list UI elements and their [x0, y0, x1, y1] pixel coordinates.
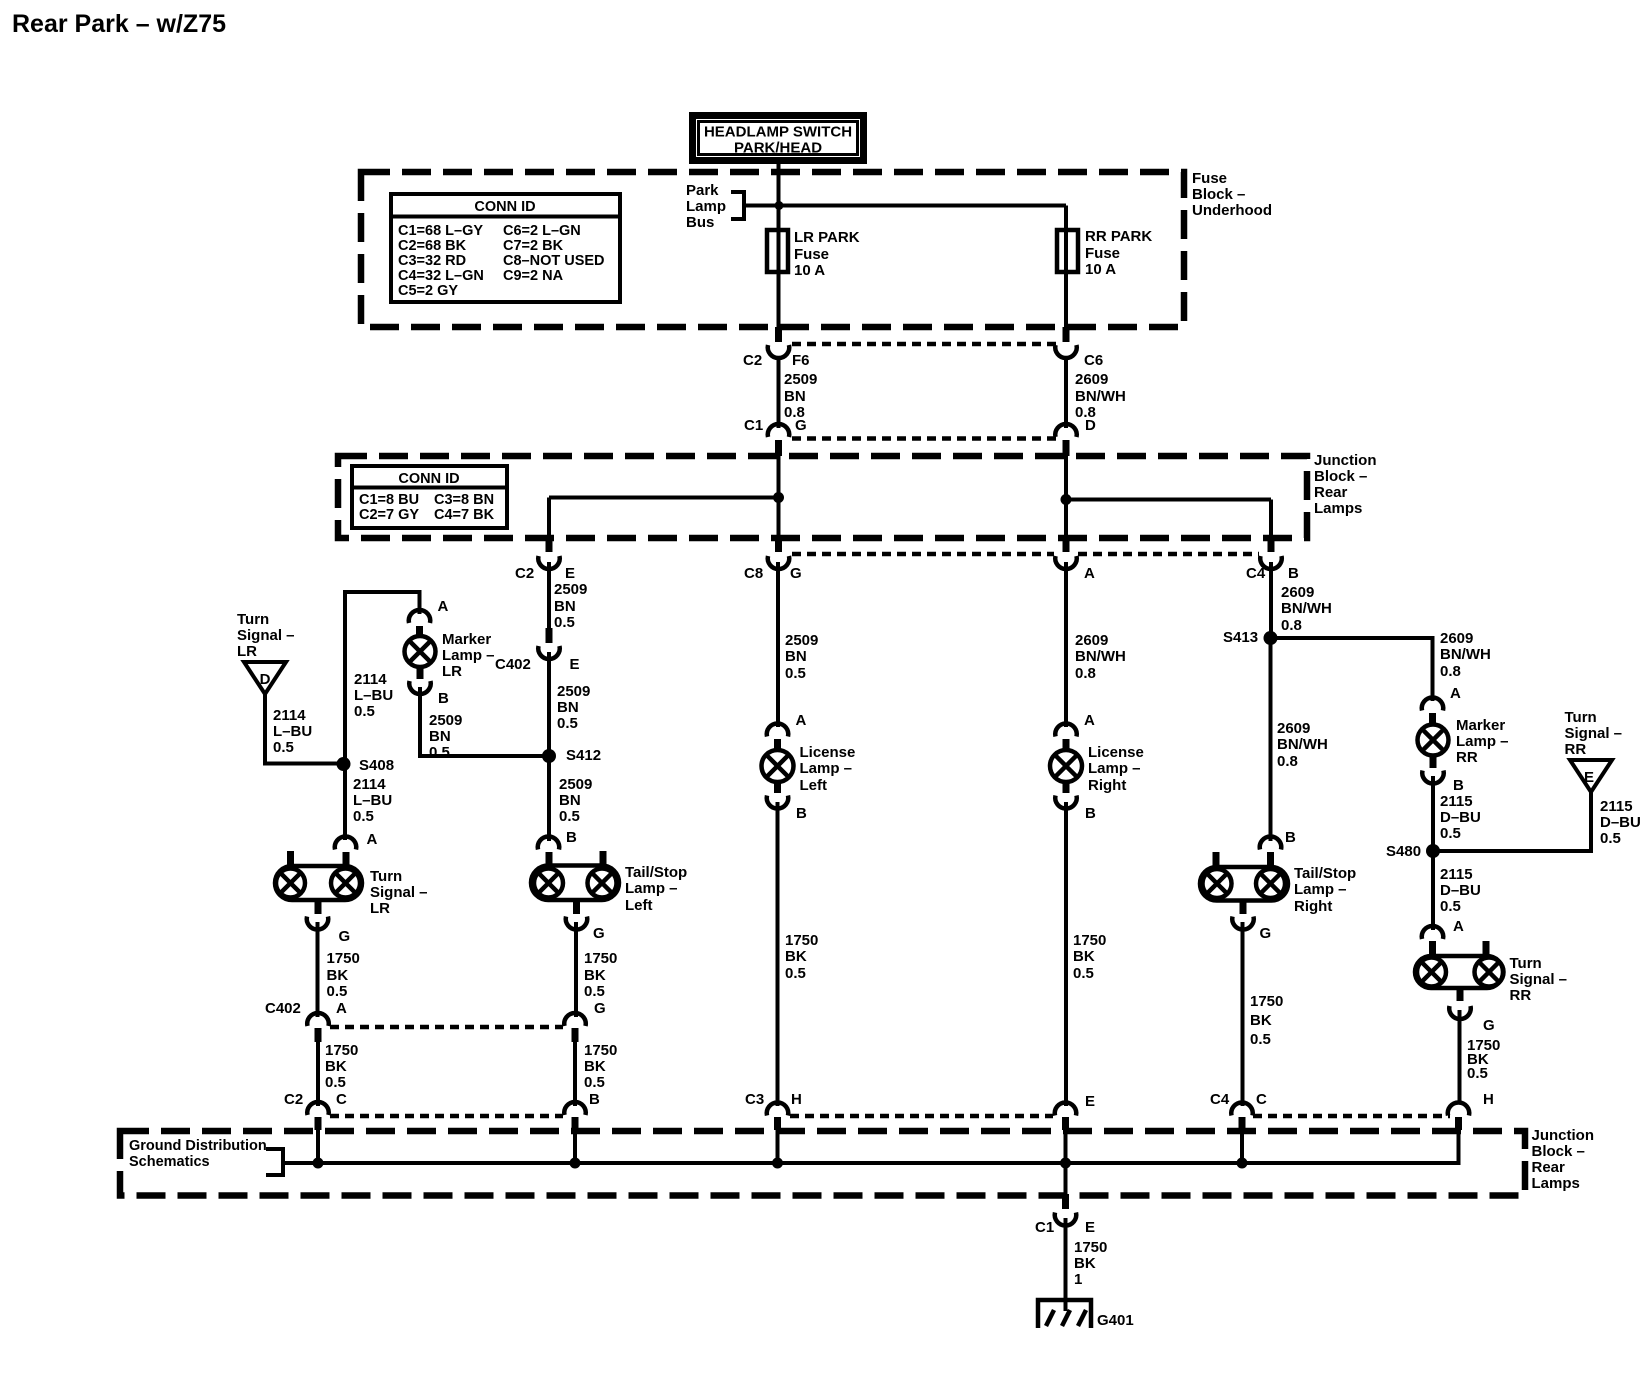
svg-text:0.5: 0.5	[354, 703, 375, 720]
svg-text:BN/WH: BN/WH	[1075, 648, 1126, 665]
svg-text:G: G	[593, 925, 605, 942]
svg-text:Block –: Block –	[1314, 468, 1367, 485]
CONN ID table (fuse block)	[391, 194, 620, 302]
wire tail-R G down 1750 BK 0.5	[1241, 922, 1245, 1106]
connector triangle D: Turn Signal LR	[244, 662, 286, 694]
svg-text:E: E	[565, 565, 575, 582]
svg-text:Lamp –: Lamp –	[442, 647, 495, 664]
svg-text:A: A	[796, 712, 807, 729]
svg-text:C2=7 GY: C2=7 GY	[359, 507, 419, 523]
svg-text:Park: Park	[686, 182, 719, 199]
svg-text:Left: Left	[800, 777, 828, 794]
svg-text:BN/WH: BN/WH	[1277, 736, 1328, 753]
svg-text:CONN ID: CONN ID	[398, 471, 459, 487]
svg-text:0.5: 0.5	[325, 1074, 346, 1091]
wire A down 2609 BN/WH 0.8 (license right)	[1064, 562, 1068, 727]
svg-text:1750: 1750	[584, 1042, 617, 1059]
wire TS-RR G down 1750 BK 0.5	[1458, 1010, 1462, 1104]
node bus dots	[313, 1158, 324, 1169]
svg-text:Lamp –: Lamp –	[1456, 733, 1509, 750]
svg-text:B: B	[796, 805, 807, 822]
wire inside junction block left	[777, 456, 781, 539]
svg-text:0.5: 0.5	[1600, 830, 1621, 847]
svg-text:LR: LR	[237, 643, 257, 660]
svg-text:Lamp –: Lamp –	[800, 760, 853, 777]
svg-text:BN: BN	[784, 388, 806, 405]
svg-text:1750: 1750	[325, 1042, 358, 1059]
svg-text:2114: 2114	[354, 671, 387, 688]
svg-text:C: C	[1256, 1091, 1267, 1108]
svg-text:A: A	[336, 1000, 347, 1017]
wire license-L B down 1750 BK 0.5	[776, 802, 780, 1106]
svg-text:C1: C1	[744, 417, 763, 434]
fuse LR PARK 10A	[767, 230, 788, 272]
label Junction Block - Rear Lamps	[1314, 452, 1377, 517]
svg-text:D–BU: D–BU	[1440, 809, 1481, 826]
junction block exits row C2/E C8/G A C4/B	[515, 538, 1299, 582]
svg-text:2509: 2509	[429, 712, 462, 729]
svg-text:0.5: 0.5	[1467, 1065, 1488, 1082]
fuse block underhood dashed box	[361, 172, 1184, 327]
svg-text:A: A	[1453, 918, 1464, 935]
fuse RR PARK 10A	[1057, 230, 1078, 272]
wire 2509 BN 0.8 (LR park to junction block)	[777, 356, 781, 428]
svg-text:1750: 1750	[327, 950, 360, 967]
svg-text:CONN ID: CONN ID	[474, 199, 535, 215]
svg-text:LR: LR	[370, 900, 390, 917]
svg-text:A: A	[367, 831, 378, 848]
svg-text:S408: S408	[359, 757, 394, 774]
svg-text:C1: C1	[1035, 1219, 1054, 1236]
svg-text:G: G	[1483, 1017, 1495, 1034]
wire drops to bus	[776, 1130, 780, 1163]
svg-text:0.5: 0.5	[1440, 825, 1461, 842]
svg-text:A: A	[438, 598, 449, 615]
svg-text:0.5: 0.5	[429, 744, 450, 761]
svg-text:LR: LR	[442, 663, 462, 680]
svg-text:0.5: 0.5	[273, 739, 294, 756]
svg-text:HEADLAMP SWITCH: HEADLAMP SWITCH	[704, 124, 852, 141]
wire: RR park feed down	[1064, 206, 1068, 329]
svg-text:B: B	[1285, 829, 1296, 846]
svg-text:2509: 2509	[784, 371, 817, 388]
svg-text:B: B	[566, 829, 577, 846]
label Tail/Stop Lamp - Right	[1294, 865, 1356, 915]
svg-text:0.8: 0.8	[1277, 753, 1298, 770]
svg-text:Fuse: Fuse	[794, 246, 829, 263]
svg-text:C6: C6	[1084, 352, 1103, 369]
svg-text:Rear Park – w/Z75: Rear Park – w/Z75	[12, 10, 226, 38]
lamp: License Lamp - Left	[762, 712, 808, 822]
svg-text:Junction: Junction	[1532, 1127, 1595, 1144]
svg-text:C402: C402	[495, 656, 531, 673]
svg-text:Tail/Stop: Tail/Stop	[1294, 865, 1356, 882]
svg-text:BN/WH: BN/WH	[1440, 646, 1491, 663]
wire ground bus	[283, 1130, 1459, 1163]
svg-text:2509: 2509	[554, 581, 587, 598]
svg-text:F6: F6	[792, 352, 810, 369]
svg-text:BN: BN	[554, 598, 576, 615]
svg-text:BN: BN	[557, 699, 579, 716]
CONN ID table (junction block)	[352, 466, 507, 528]
connector row C3/H E C4/C H above ground bus	[745, 1091, 1494, 1130]
svg-text:BK: BK	[1073, 948, 1095, 965]
svg-text:C: C	[336, 1091, 347, 1108]
svg-text:2114: 2114	[353, 776, 386, 793]
svg-text:BK: BK	[327, 967, 349, 984]
svg-text:Lamp –: Lamp –	[1088, 760, 1141, 777]
svg-text:Fuse: Fuse	[1085, 245, 1120, 262]
svg-text:G401: G401	[1097, 1312, 1134, 1329]
wire S413 down 2609 BN/WH 0.8 to tail lamp right B	[1269, 638, 1273, 841]
svg-text:G: G	[1260, 925, 1272, 942]
wire: park lamp bus horizontal	[744, 204, 1066, 208]
svg-text:Rear: Rear	[1532, 1159, 1566, 1176]
label Fuse Block - Underhood	[1192, 170, 1272, 219]
wire from triangle D to S408 2114 L-BU 0.5	[265, 694, 344, 764]
svg-text:E: E	[570, 656, 580, 673]
svg-text:0.8: 0.8	[1075, 665, 1096, 682]
lamp: Turn Signal - RR	[1415, 918, 1504, 1034]
svg-text:BN: BN	[785, 648, 807, 665]
label Turn Signal - LR (triangle)	[237, 611, 295, 660]
label Marker Lamp - RR	[1456, 717, 1509, 766]
svg-text:0.5: 0.5	[1250, 1031, 1271, 1048]
svg-text:2609: 2609	[1277, 720, 1310, 737]
svg-text:2115: 2115	[1600, 798, 1633, 815]
svg-text:C6=2 L–GN: C6=2 L–GN	[503, 223, 581, 239]
svg-text:C3: C3	[745, 1091, 764, 1108]
svg-text:2509: 2509	[557, 683, 590, 700]
wire S408 down 2114 L-BU 0.5	[343, 764, 347, 840]
svg-text:0.5: 0.5	[785, 665, 806, 682]
svg-text:1750: 1750	[785, 932, 818, 949]
svg-text:0.5: 0.5	[327, 983, 348, 1000]
svg-text:Tail/Stop: Tail/Stop	[625, 864, 687, 881]
lamp: Marker Lamp - RR	[1418, 685, 1465, 794]
svg-text:B: B	[589, 1091, 600, 1108]
svg-text:C7=2 BK: C7=2 BK	[503, 238, 564, 254]
label Turn Signal - RR (triangle)	[1565, 709, 1623, 758]
svg-text:PARK/HEAD: PARK/HEAD	[734, 140, 822, 157]
svg-text:BK: BK	[785, 948, 807, 965]
svg-text:Block –: Block –	[1532, 1143, 1585, 1160]
lamp: Tail/Stop Lamp - Right	[1200, 829, 1296, 942]
svg-text:Marker: Marker	[442, 631, 491, 648]
svg-text:Bus: Bus	[686, 214, 714, 231]
svg-text:0.5: 0.5	[559, 808, 580, 825]
svg-text:Rear: Rear	[1314, 484, 1348, 501]
label 2114 L-BU 0.5 upper	[354, 671, 393, 720]
svg-text:Underhood: Underhood	[1192, 202, 1272, 219]
wire S413 right branch to marker RR	[1271, 638, 1433, 701]
node S408	[337, 757, 351, 771]
wire (C402 G to B) right	[573, 1042, 577, 1106]
wire C402 to S412 2509 BN 0.5	[547, 652, 551, 756]
svg-text:C2: C2	[284, 1091, 303, 1108]
wire triangle E down to S480 2115 D-BU 0.5	[1433, 792, 1591, 851]
svg-text:0.5: 0.5	[1073, 965, 1094, 982]
svg-text:Junction: Junction	[1314, 452, 1377, 469]
label Turn Signal - RR (lamp)	[1510, 955, 1568, 1004]
svg-text:License: License	[1088, 744, 1144, 761]
wire S480 down 2115 D-BU 0.5 to TS-RR A	[1431, 851, 1435, 930]
svg-text:Lamp –: Lamp –	[1294, 881, 1347, 898]
svg-text:H: H	[1483, 1091, 1494, 1108]
svg-text:Lamps: Lamps	[1532, 1175, 1580, 1192]
svg-text:BK: BK	[1074, 1255, 1096, 1272]
wire C4/B down 2609 BN/WH 0.8 to S413	[1269, 562, 1273, 638]
svg-text:0.8: 0.8	[1440, 663, 1461, 680]
svg-text:C4=7 BK: C4=7 BK	[434, 507, 495, 523]
node dot inside junction block right	[1061, 494, 1072, 505]
svg-text:Right: Right	[1088, 777, 1126, 794]
svg-text:D–BU: D–BU	[1600, 814, 1641, 831]
svg-text:1750: 1750	[1074, 1239, 1107, 1256]
connector C402/E inline	[495, 628, 580, 673]
svg-text:L–BU: L–BU	[273, 723, 312, 740]
bracket for Park Lamp Bus	[731, 192, 744, 219]
connector row C402 A / G	[265, 1000, 606, 1042]
wire inside junction block right	[1064, 456, 1068, 539]
svg-text:G: G	[594, 1000, 606, 1017]
svg-text:S412: S412	[566, 747, 601, 764]
wire TS-LR G down 1750 BK 0.5	[316, 922, 320, 1017]
ground distribution / junction block dashed box	[120, 1131, 1525, 1196]
label Turn Signal - LR (lamp)	[370, 868, 428, 917]
svg-text:RR: RR	[1510, 987, 1532, 1004]
svg-text:Block –: Block –	[1192, 186, 1245, 203]
wire 2609 BN/WH 0.8 (RR park to junction block)	[1064, 356, 1068, 428]
wire marker RR B down 2115 D-BU 0.5 to S480	[1431, 776, 1435, 851]
svg-text:2609: 2609	[1281, 584, 1314, 601]
svg-text:0.5: 0.5	[584, 1074, 605, 1091]
svg-text:A: A	[1084, 565, 1095, 582]
ground G401	[1038, 1300, 1134, 1329]
label Ground Distribution Schematics	[129, 1138, 267, 1170]
node dot inside junction block left	[773, 492, 784, 503]
wire C2/E down 2509 BN 0.5	[547, 562, 551, 628]
svg-text:2114: 2114	[273, 707, 306, 724]
junction block rear lamps dashed box	[338, 456, 1307, 538]
svg-text:S413: S413	[1223, 629, 1258, 646]
svg-text:Lamp: Lamp	[686, 198, 726, 215]
svg-text:C2: C2	[515, 565, 534, 582]
svg-text:Turn: Turn	[237, 611, 269, 628]
svg-text:BK: BK	[584, 967, 606, 984]
svg-text:C8–NOT USED: C8–NOT USED	[503, 253, 605, 269]
svg-text:C2: C2	[743, 352, 762, 369]
svg-text:RR PARK: RR PARK	[1085, 228, 1152, 245]
svg-text:2609: 2609	[1440, 630, 1473, 647]
wire tail-L G down 1750 BK 0.5	[574, 922, 578, 1017]
wire C8/G down 2509 BN 0.5	[776, 562, 780, 727]
wire marker LR B to S412 2509 BN 0.5	[420, 687, 549, 756]
svg-text:BN/WH: BN/WH	[1281, 600, 1332, 617]
svg-text:L–BU: L–BU	[353, 792, 392, 809]
svg-text:Signal –: Signal –	[1565, 725, 1623, 742]
svg-text:0.5: 0.5	[557, 715, 578, 732]
svg-text:0.5: 0.5	[353, 808, 374, 825]
svg-text:BK: BK	[1250, 1012, 1272, 1029]
svg-text:1750: 1750	[584, 950, 617, 967]
svg-text:D: D	[260, 671, 271, 688]
svg-text:G: G	[339, 928, 351, 945]
svg-text:H: H	[791, 1091, 802, 1108]
svg-text:Right: Right	[1294, 898, 1332, 915]
svg-text:C2=68 BK: C2=68 BK	[398, 238, 467, 254]
svg-text:B: B	[438, 690, 449, 707]
svg-text:Turn: Turn	[1565, 709, 1597, 726]
svg-text:C1=8 BU: C1=8 BU	[359, 492, 419, 508]
svg-text:Left: Left	[625, 897, 653, 914]
svg-text:Lamp –: Lamp –	[625, 880, 678, 897]
svg-text:1: 1	[1074, 1271, 1082, 1288]
label Park Lamp Bus	[686, 182, 726, 231]
svg-text:G: G	[795, 417, 807, 434]
svg-text:License: License	[800, 744, 856, 761]
wire S412 down 2509 BN 0.5 to tail lamp B	[547, 756, 551, 841]
svg-text:B: B	[1085, 805, 1096, 822]
svg-text:Fuse: Fuse	[1192, 170, 1227, 187]
lamp: Turn Signal - LR	[275, 831, 378, 945]
svg-text:L–BU: L–BU	[354, 687, 393, 704]
bracket for ground distribution	[266, 1149, 283, 1175]
label License Lamp - Right	[1088, 744, 1144, 794]
svg-text:2115: 2115	[1440, 866, 1473, 883]
wire: headlamp switch down through LR fuse to fuse block bottom	[777, 164, 781, 328]
svg-text:2609: 2609	[1075, 632, 1108, 649]
wire top left horizontal to marker lamp	[345, 592, 420, 764]
svg-text:D: D	[1085, 417, 1096, 434]
svg-text:1750: 1750	[1073, 932, 1106, 949]
wire C1/E down 1750 BK 1 to G401	[1064, 1218, 1068, 1311]
svg-text:Signal –: Signal –	[370, 884, 428, 901]
node S412	[542, 749, 556, 763]
label Marker Lamp - LR	[442, 631, 495, 680]
svg-text:0.8: 0.8	[1281, 617, 1302, 634]
svg-text:2609: 2609	[1075, 371, 1108, 388]
svg-text:BK: BK	[325, 1058, 347, 1075]
svg-text:A: A	[1084, 712, 1095, 729]
label Tail/Stop Lamp - Left	[625, 864, 687, 914]
svg-text:BN/WH: BN/WH	[1075, 388, 1126, 405]
marker lamp LR	[405, 598, 450, 707]
svg-text:E: E	[1085, 1093, 1095, 1110]
svg-text:C8: C8	[744, 565, 763, 582]
wire 1750 BK 0.5 (C402 to C2) left	[316, 1042, 320, 1106]
svg-text:B: B	[1288, 565, 1299, 582]
svg-text:BN: BN	[429, 728, 451, 745]
node S480	[1426, 844, 1440, 858]
svg-text:0.5: 0.5	[785, 965, 806, 982]
svg-text:C1=68 L–GY: C1=68 L–GY	[398, 223, 483, 239]
node S413	[1264, 631, 1278, 645]
svg-text:Ground Distribution: Ground Distribution	[129, 1138, 267, 1154]
svg-text:LR PARK: LR PARK	[794, 229, 860, 246]
lamp: Tail/Stop Lamp - Left	[531, 829, 619, 942]
svg-text:E: E	[1584, 769, 1594, 786]
svg-text:Signal –: Signal –	[1510, 971, 1568, 988]
connector row C2 C / B	[284, 1091, 600, 1130]
svg-text:Marker: Marker	[1456, 717, 1505, 734]
svg-text:C5=2 GY: C5=2 GY	[398, 283, 458, 299]
svg-text:C4: C4	[1246, 565, 1266, 582]
svg-text:C4: C4	[1210, 1091, 1230, 1108]
svg-text:A: A	[1450, 685, 1461, 702]
svg-text:Turn: Turn	[1510, 955, 1542, 972]
connector triangle E: Turn Signal RR	[1570, 760, 1612, 792]
svg-text:Schematics: Schematics	[129, 1154, 210, 1170]
svg-text:C4=32 L–GN: C4=32 L–GN	[398, 268, 484, 284]
svg-text:10 A: 10 A	[794, 262, 825, 279]
svg-text:BK: BK	[584, 1058, 606, 1075]
svg-text:2115: 2115	[1440, 793, 1473, 810]
svg-text:C9=2 NA: C9=2 NA	[503, 268, 564, 284]
node: park lamp bus junction dot	[775, 201, 784, 210]
svg-text:Lamps: Lamps	[1314, 500, 1362, 517]
lamp: License Lamp - Right	[1050, 712, 1096, 822]
svg-text:E: E	[1085, 1219, 1095, 1236]
connector row C2/F6 - C6 below fuse block	[743, 327, 1103, 369]
svg-text:C3=32 RD: C3=32 RD	[398, 253, 466, 269]
svg-text:C402: C402	[265, 1000, 301, 1017]
svg-text:B: B	[1453, 777, 1464, 794]
svg-text:0.5: 0.5	[554, 614, 575, 631]
svg-text:Signal –: Signal –	[237, 627, 295, 644]
connector C1/E below junction block	[1035, 1194, 1095, 1236]
wire stubs to ground bus left	[316, 1130, 320, 1163]
svg-text:S480: S480	[1386, 843, 1421, 860]
svg-text:RR: RR	[1456, 749, 1478, 766]
svg-text:BN: BN	[559, 792, 581, 809]
svg-text:Turn: Turn	[370, 868, 402, 885]
component box: HEADLAMP SWITCH PARK/HEAD	[689, 112, 867, 164]
svg-text:0.5: 0.5	[1440, 898, 1461, 915]
svg-text:G: G	[790, 565, 802, 582]
svg-text:1750: 1750	[1250, 993, 1283, 1010]
svg-text:2509: 2509	[785, 632, 818, 649]
svg-text:D–BU: D–BU	[1440, 882, 1481, 899]
connector row C1/G - D above junction block	[744, 417, 1096, 456]
svg-text:10 A: 10 A	[1085, 261, 1116, 278]
label License Lamp - Left	[800, 744, 856, 794]
svg-text:C3=8 BN: C3=8 BN	[434, 492, 494, 508]
wire license-R B down 1750 BK 0.5	[1064, 802, 1068, 1106]
svg-text:RR: RR	[1565, 741, 1587, 758]
label Junction Block - Rear Lamps (bottom)	[1532, 1127, 1595, 1192]
svg-text:2509: 2509	[559, 776, 592, 793]
svg-text:0.5: 0.5	[584, 983, 605, 1000]
